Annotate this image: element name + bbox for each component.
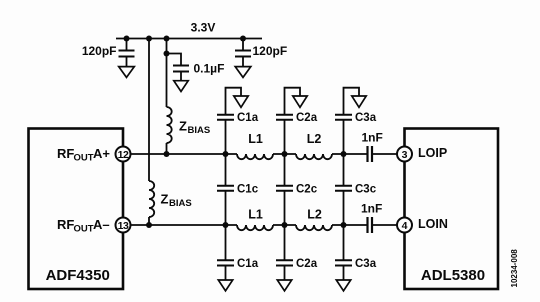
capacitor C 0.1uF (167, 54, 225, 81)
svg-text:10234-008: 10234-008 (510, 249, 519, 288)
capacitor 120pF left (82, 39, 135, 67)
svg-text:L1: L1 (248, 208, 263, 222)
junction zbias2-bottomline (146, 222, 152, 228)
svg-text:Z: Z (179, 119, 187, 134)
capacitor C3a bottom (335, 225, 377, 280)
svg-text:Z: Z (161, 192, 169, 207)
capacitor C1a bottom (217, 225, 259, 280)
svg-text:120pF: 120pF (253, 44, 288, 58)
svg-text:1nF: 1nF (361, 202, 382, 216)
svg-text:L2: L2 (307, 132, 322, 146)
inductor L1 bottom (237, 225, 273, 230)
ground under C3a bottom (336, 280, 350, 291)
svg-text:1nF: 1nF (362, 131, 383, 145)
junction bottomline col1 (223, 222, 229, 228)
wire bottom signal line (131, 224, 237, 226)
svg-text:C2a: C2a (296, 112, 318, 124)
capacitor C3c (335, 154, 377, 225)
svg-text:C1a: C1a (237, 112, 259, 124)
wire 3.3V power rail (116, 38, 262, 40)
inductor ZBIAS1 (167, 107, 172, 143)
inductor L1 top (237, 154, 273, 159)
svg-text:BIAS: BIAS (188, 125, 211, 136)
ground above C3a top (352, 96, 366, 107)
svg-text:BIAS: BIAS (169, 198, 192, 209)
IC ADL5380 box (405, 129, 499, 290)
pin label RFoutA+ (57, 146, 110, 164)
svg-text:ADL5380: ADL5380 (421, 267, 485, 284)
svg-text:C1c: C1c (237, 184, 259, 196)
svg-text:120pF: 120pF (82, 44, 117, 58)
ground above C2a top (293, 96, 307, 107)
junction topline col1 (223, 151, 229, 157)
capacitor 1nF top (362, 131, 383, 163)
junction rail-zbias1 (164, 36, 170, 42)
wire 1nF to pin4 (373, 224, 397, 226)
junction rail-120pF-left (124, 36, 130, 42)
pin label RFoutA- (57, 217, 110, 235)
junction 0.1uF branch (164, 51, 170, 57)
pin 13 circle (116, 218, 131, 233)
svg-text:12: 12 (118, 149, 129, 161)
capacitor C1c (217, 154, 259, 225)
junction rail-zbias2 (146, 36, 152, 42)
junction zbias1-topline (164, 151, 170, 157)
wire top between L1 L2 (273, 153, 296, 155)
ground above C1a top (234, 96, 248, 107)
wire zbias1 feed (166, 39, 168, 108)
svg-text:A+: A+ (93, 146, 110, 161)
svg-text:L2: L2 (307, 208, 322, 222)
wire zbias2 feed (148, 39, 150, 182)
svg-text:3: 3 (402, 149, 408, 161)
pin 12 circle (116, 147, 131, 162)
svg-text:LOIN: LOIN (418, 217, 448, 231)
svg-text:OUT: OUT (74, 224, 94, 235)
pin 4 circle (397, 218, 412, 233)
inductor L2 bottom (296, 225, 332, 230)
svg-text:OUT: OUT (74, 153, 94, 164)
wire bottom to 1nF (332, 224, 367, 226)
inductor ZBIAS2 (149, 181, 154, 217)
svg-text:C3c: C3c (355, 184, 377, 196)
capacitor C3a top (335, 88, 377, 154)
IC ADF4350 box (29, 129, 124, 290)
wire 1nF to pin3 (373, 153, 397, 155)
capacitor C2a top (276, 88, 318, 154)
capacitor C2c (276, 154, 318, 225)
junction topline col2 (282, 151, 288, 157)
ground under C2a bottom (277, 280, 291, 291)
junction topline col3 (341, 151, 347, 157)
wire zbias2 to node (148, 217, 150, 225)
wire top signal line (131, 153, 237, 155)
svg-text:L1: L1 (248, 132, 263, 146)
capacitor C1a top (217, 88, 259, 154)
svg-text:C1a: C1a (237, 258, 259, 270)
svg-text:A–: A– (93, 217, 110, 232)
pin 3 circle (397, 147, 412, 162)
svg-text:LOIP: LOIP (418, 146, 447, 160)
svg-text:RF: RF (57, 146, 74, 161)
wire top to 1nF (332, 153, 367, 155)
svg-text:0.1µF: 0.1µF (194, 61, 225, 75)
capacitor C2a bottom (276, 225, 318, 280)
junction bottomline col2 (282, 222, 288, 228)
svg-text:3.3V: 3.3V (191, 20, 216, 34)
svg-text:RF: RF (57, 217, 74, 232)
svg-text:ADF4350: ADF4350 (46, 267, 110, 284)
svg-text:C3a: C3a (355, 258, 377, 270)
wire bottom between L1 L2 (273, 224, 296, 226)
junction rail-120pF-right (240, 36, 246, 42)
svg-text:4: 4 (402, 220, 408, 232)
junction bottomline col3 (341, 222, 347, 228)
capacitor 120pF right (235, 39, 287, 67)
ground under 120pF right (235, 67, 251, 78)
svg-text:13: 13 (118, 220, 129, 232)
ground under 0.1uF (174, 81, 188, 92)
ground under C1a bottom (218, 280, 232, 291)
wire zbias1 to node (166, 143, 168, 154)
svg-text:C3a: C3a (355, 112, 377, 124)
svg-text:C2c: C2c (296, 184, 318, 196)
ground under 120pF left (119, 67, 135, 78)
capacitor 1nF bottom (361, 202, 382, 234)
svg-text:C2a: C2a (296, 258, 318, 270)
inductor L2 top (296, 154, 332, 159)
